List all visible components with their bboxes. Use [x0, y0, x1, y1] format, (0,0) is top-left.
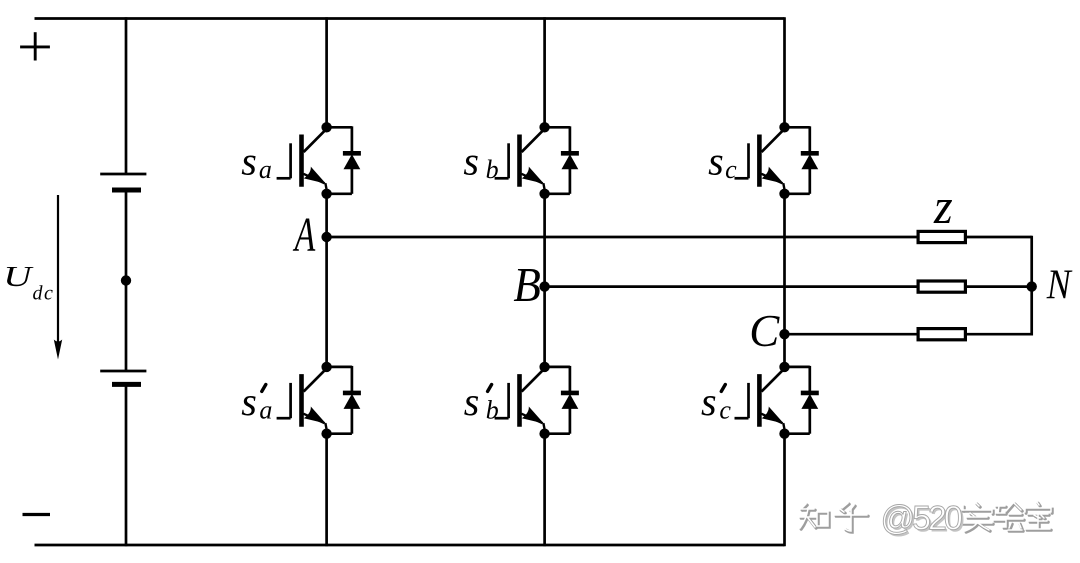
wire: battery bottom lead: [125, 384, 128, 546]
label Sc: [708, 139, 737, 185]
wire: leg c lower vertical: [783, 434, 786, 547]
diode D3 (antiparallel with Q3): [545, 126, 579, 194]
wire: leg b middle vertical: [543, 194, 546, 367]
diode D1 (antiparallel with Q1): [327, 126, 361, 194]
svg-text:a: a: [259, 155, 272, 184]
svg-text:s: s: [241, 379, 257, 424]
battery E2 (lower source): [100, 371, 146, 384]
resistor Z2 (phase B): [918, 281, 965, 292]
node N (neutral): [1027, 281, 1037, 291]
label Sb-prime: [464, 379, 499, 425]
svg-text:a: a: [259, 396, 272, 425]
node: DC midpoint junction: [121, 275, 131, 285]
node C: [779, 329, 789, 339]
svg-text:A: A: [292, 207, 315, 262]
label: + polarity mark: [20, 32, 50, 60]
diode D4 (antiparallel with Q4): [545, 366, 579, 434]
transistor Q4 (IGBT): [495, 362, 550, 439]
wire: phase C line: [785, 333, 1032, 336]
wire: leg a upper vertical: [325, 17, 328, 127]
label Sb: [463, 139, 498, 185]
svg-text:N: N: [1046, 262, 1073, 308]
svg-text:dc: dc: [33, 283, 55, 305]
transistor Q2 (IGBT): [277, 362, 332, 439]
wire: leg a middle vertical: [325, 194, 328, 367]
svg-text:s: s: [708, 139, 724, 184]
transistor Q6 (IGBT): [735, 362, 790, 439]
resistor Z3 (phase C): [918, 329, 965, 340]
svg-text:s: s: [464, 379, 480, 424]
resistor Z1 (phase A): [918, 231, 965, 242]
svg-text:z: z: [933, 178, 953, 234]
node A: [321, 232, 331, 242]
wire: leg c middle vertical: [783, 194, 786, 367]
label Sc-prime: [701, 379, 731, 425]
watermark: zhihu @520 lab (embossed gray): [800, 500, 1052, 540]
arrow: Udc direction (downward): [54, 195, 62, 360]
svg-text:s: s: [463, 139, 479, 184]
svg-text:c: c: [719, 396, 731, 425]
diode D5 (antiparallel with Q5): [785, 126, 819, 194]
svg-text:s: s: [701, 379, 717, 424]
wire: positive DC rail (top): [35, 17, 785, 20]
svg-text:@520: @520: [881, 500, 962, 538]
label Udc: [3, 260, 54, 304]
svg-text:c: c: [725, 155, 737, 184]
svg-text:s: s: [241, 139, 257, 184]
svg-text:U: U: [3, 260, 34, 292]
transistor Q5 (IGBT): [735, 122, 790, 199]
label: - polarity mark: [23, 513, 51, 516]
diode D6 (antiparallel with Q6): [785, 366, 819, 434]
label Sa-prime: [241, 379, 272, 425]
label Sa: [241, 139, 272, 185]
transistor Q1 (IGBT): [277, 122, 332, 199]
wire: leg b lower vertical: [543, 434, 546, 547]
wire: battery top lead: [125, 17, 128, 174]
wire: phase A line: [327, 236, 1032, 239]
wire: leg c upper vertical: [783, 17, 786, 127]
svg-text:b: b: [486, 155, 499, 184]
svg-text:b: b: [486, 396, 499, 425]
wire: negative DC rail (bottom): [35, 544, 785, 547]
wire: leg a lower vertical: [325, 434, 328, 547]
diode D2 (antiparallel with Q2): [327, 366, 361, 434]
wire: leg b upper vertical: [543, 17, 546, 127]
node B: [539, 281, 549, 291]
wire: phase B line: [545, 285, 1032, 288]
transistor Q3 (IGBT): [495, 122, 550, 199]
wire: right bus (to neutral): [1030, 236, 1033, 336]
wire: battery middle link: [125, 190, 128, 371]
svg-text:B: B: [513, 258, 540, 312]
battery E1 (upper source): [100, 174, 146, 190]
svg-text:C: C: [749, 305, 780, 357]
